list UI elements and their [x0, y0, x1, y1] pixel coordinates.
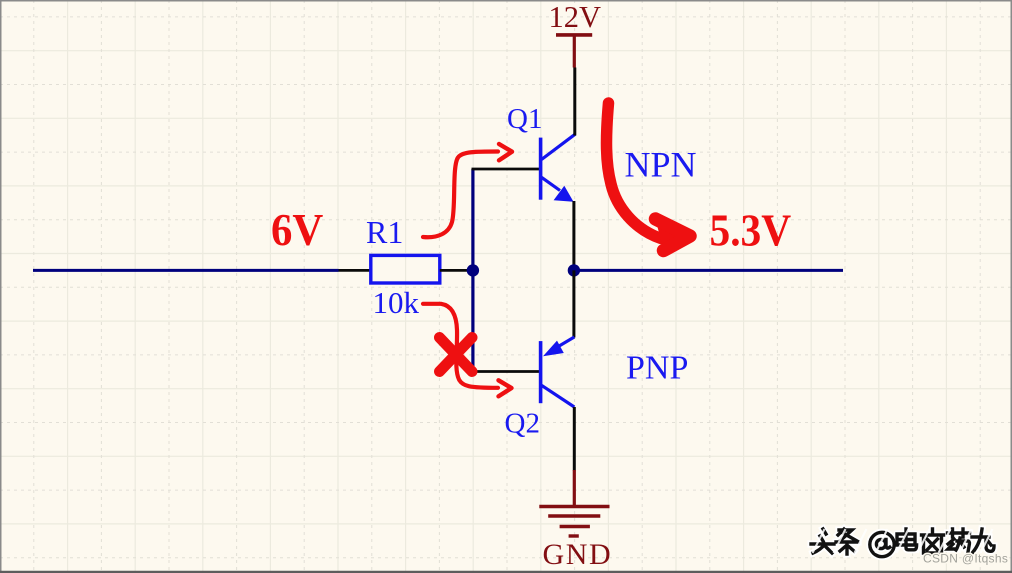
wire: Q1 emitter to output node: [572, 201, 575, 270]
label Q1: [507, 103, 542, 135]
resistor R1: [371, 255, 440, 283]
wire: Q2 collector to ground: [573, 407, 576, 471]
annotation: big red curved arrow to 5.3V: [606, 103, 690, 251]
power symbol 12V bar: [556, 35, 592, 68]
wire: R1 left lead: [339, 269, 371, 272]
annotation: arrow from 10k to Q2 base: [423, 304, 512, 397]
svg-text:10k: 10k: [373, 285, 420, 320]
annotation: 6V input voltage: [271, 204, 323, 256]
ground GND symbol: [539, 470, 609, 536]
label R1: [366, 214, 403, 250]
svg-text:Q1: Q1: [507, 103, 542, 135]
wire: Q1 base wire: [472, 168, 540, 171]
wire: output node down to Q2 emitter: [572, 270, 575, 337]
label PNP: [626, 350, 688, 387]
wire: R1 right lead to node A: [440, 269, 473, 272]
annotation: arrow from R1 to Q1 base: [423, 144, 512, 237]
wire: 12V rail to Q1 collector: [573, 68, 576, 136]
label Q2: [505, 408, 540, 440]
net label GND: [543, 538, 613, 571]
wire: input net from left edge to R1: [33, 269, 339, 272]
svg-text:NPN: NPN: [625, 145, 697, 185]
transistor Q1 (NPN): [541, 134, 575, 202]
annotation: red X cross-out: [440, 338, 473, 372]
svg-text:12V: 12V: [549, 0, 602, 34]
svg-text:5.3V: 5.3V: [710, 205, 792, 255]
transistor Q2 (PNP): [541, 337, 575, 407]
annotation: 5.3V output voltage: [710, 205, 792, 255]
svg-text:CSDN @Itqshs: CSDN @Itqshs: [923, 552, 1008, 566]
svg-text:6V: 6V: [271, 204, 323, 256]
svg-text:PNP: PNP: [626, 350, 688, 387]
svg-text:GND: GND: [543, 538, 613, 571]
node A junction dot (base node): [467, 264, 479, 276]
net label 12V: [549, 0, 602, 34]
watermark CSDN @Itqshs: [923, 552, 1008, 566]
svg-text:R1: R1: [366, 214, 403, 250]
wire: Q2 base wire: [472, 370, 540, 373]
svg-text:Q2: Q2: [505, 408, 540, 440]
value 10k: [373, 285, 420, 320]
node B junction dot (output node): [568, 264, 580, 276]
label NPN: [625, 145, 697, 185]
watermark 头条 @电卤药丸: [811, 529, 994, 557]
wire: output net to the right: [574, 269, 843, 272]
wire: vertical base bus: [471, 169, 474, 372]
